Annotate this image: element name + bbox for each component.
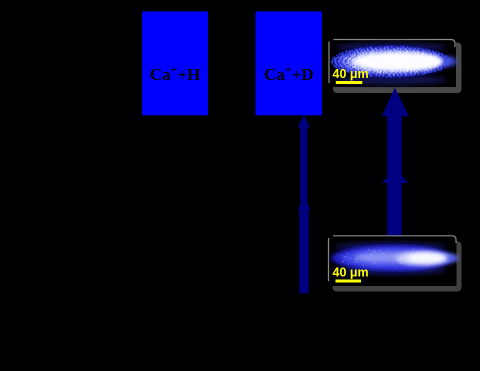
svg-text:40 μm: 40 μm <box>333 67 369 81</box>
top photo scale bar <box>336 81 363 84</box>
svg-text:40 μm: 40 μm <box>333 265 369 279</box>
top crystal faint frame wash <box>335 43 447 52</box>
box Ca+D <box>256 12 323 116</box>
bottom photo scale bar <box>336 280 362 283</box>
bottom photo frame <box>327 235 459 286</box>
bottom crystal faint frame wash <box>335 242 447 251</box>
bottom crystal right tip <box>432 254 458 263</box>
top photo frame <box>327 37 457 88</box>
thick arrow upper (into top photo) <box>382 88 409 180</box>
box Ca+H <box>142 12 208 116</box>
bottom crystal halo <box>328 244 454 273</box>
thin arrow upper (into Ca+D box) <box>298 115 311 206</box>
shadow of bottom photo <box>333 242 462 292</box>
top crystal core <box>349 51 443 71</box>
bottom crystal bright core <box>355 252 443 264</box>
top crystal halo <box>330 45 452 78</box>
shadow of top photo <box>333 43 462 94</box>
thin arrow lower <box>298 197 311 294</box>
top crystal speckles <box>344 50 436 73</box>
top crystal shell dots <box>331 45 451 77</box>
thick arrow lower <box>382 169 409 238</box>
bottom crystal speckles <box>337 248 445 268</box>
